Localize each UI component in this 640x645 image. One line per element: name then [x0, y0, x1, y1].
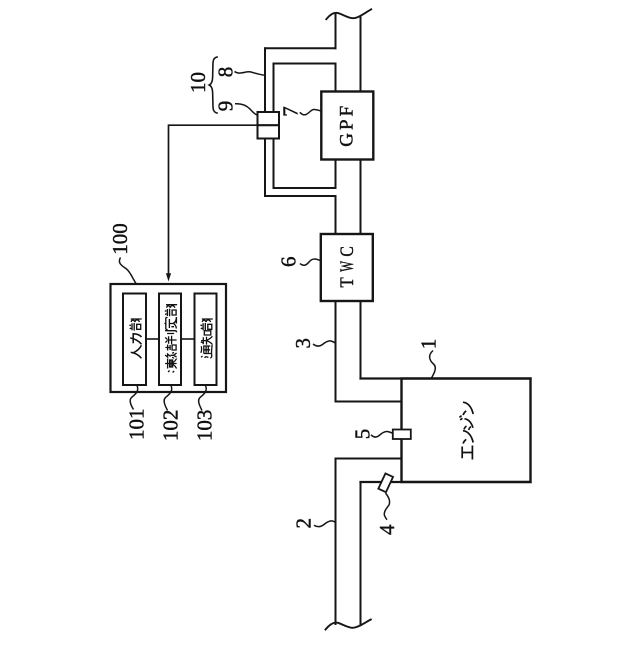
- wire: main pipe right line TWC to elbow: [360, 301, 362, 379]
- leader 4: [384, 493, 389, 520]
- wire: intake pipe top edge: [336, 458, 402, 460]
- svg-text:4: 4: [375, 524, 399, 535]
- svg-text:6: 6: [277, 256, 301, 267]
- inner box 103 (通知部): [195, 294, 217, 386]
- svg-text:W: W: [337, 261, 358, 272]
- wire: main pipe left line TWC to elbow: [335, 301, 337, 402]
- GPF box: [321, 92, 373, 160]
- wire: bypass inner top horizontal: [274, 63, 336, 65]
- svg-text:100: 100: [108, 223, 132, 255]
- wire: bypass outer left vertical upper: [264, 48, 266, 112]
- wire: bypass inner left vertical upper: [273, 64, 275, 113]
- wire: bypass outer left vertical lower: [264, 139, 266, 197]
- controller box 100: [111, 284, 227, 392]
- svg-text:T: T: [336, 277, 357, 287]
- svg-text:5: 5: [351, 429, 375, 440]
- wire: intake pipe right line: [360, 482, 362, 624]
- leader 2: [314, 521, 335, 527]
- leader 1: [430, 351, 436, 379]
- wire: pipe elbow bottom edge into engine: [336, 401, 402, 403]
- TWC box: [321, 234, 373, 301]
- control line from valve to controller: [169, 125, 258, 273]
- svg-text:GPF: GPF: [337, 106, 358, 147]
- leader 100: [119, 258, 136, 284]
- svg-text:103: 103: [193, 410, 217, 442]
- svg-text:8: 8: [214, 67, 238, 78]
- wire: bypass outer bottom horizontal: [265, 195, 336, 197]
- leader 103: [199, 386, 207, 411]
- wire: main pipe right line top section: [360, 18, 362, 92]
- wire: exhaust pipe top break (wavy): [326, 9, 371, 19]
- wire: main pipe left line between bypass and GPF: [335, 64, 337, 92]
- sensor 4 (tilted injector): [378, 473, 393, 492]
- wire: connector box102-box103: [181, 338, 195, 340]
- leader 9: [235, 104, 258, 116]
- wire: intake pipe left line: [335, 459, 337, 625]
- svg-text:102: 102: [159, 410, 183, 442]
- wire: intake pipe bottom break (wavy): [326, 620, 371, 630]
- svg-text:1: 1: [417, 339, 441, 350]
- svg-text:7: 7: [279, 106, 303, 117]
- leader 6: [300, 259, 321, 265]
- engine box (エンジン): [402, 379, 531, 483]
- inner box 102 (凍結判定部): [159, 294, 181, 386]
- inner box 101 (入力部): [123, 294, 146, 386]
- leader 102: [164, 386, 172, 411]
- svg-text:10: 10: [186, 72, 210, 93]
- svg-text:101: 101: [125, 409, 149, 441]
- brace for 10: [209, 57, 218, 113]
- svg-text:9: 9: [214, 101, 238, 112]
- arrowhead into controller box: [166, 273, 171, 281]
- sensor 5: [393, 430, 411, 440]
- leader 101: [130, 386, 138, 410]
- leader 5: [371, 431, 393, 437]
- svg-text:2: 2: [292, 518, 316, 529]
- wire: bypass outer top horizontal: [265, 47, 336, 49]
- svg-text:C: C: [337, 246, 358, 256]
- leader 8: [235, 72, 265, 76]
- leader 7: [300, 109, 321, 114]
- wire: bypass inner bottom horizontal: [274, 187, 336, 189]
- leader 3: [313, 341, 335, 346]
- wire: main pipe left line bypass-bottom to TWC: [335, 196, 337, 234]
- svg-text:3: 3: [291, 338, 315, 349]
- wire: main pipe right line GPF to TWC: [360, 160, 362, 235]
- wire: main pipe left line GPF to bypass-bottom: [335, 160, 337, 189]
- wire: pipe top edge + engine top edge: [361, 377, 531, 379]
- wire: connector box101-box102: [146, 338, 159, 340]
- wire: bypass inner left vertical lower: [273, 139, 275, 189]
- wire: engine bottom edge + intake inner edge: [361, 481, 531, 483]
- valve 9 body: [258, 112, 280, 139]
- wire: main pipe left line top section: [335, 14, 337, 49]
